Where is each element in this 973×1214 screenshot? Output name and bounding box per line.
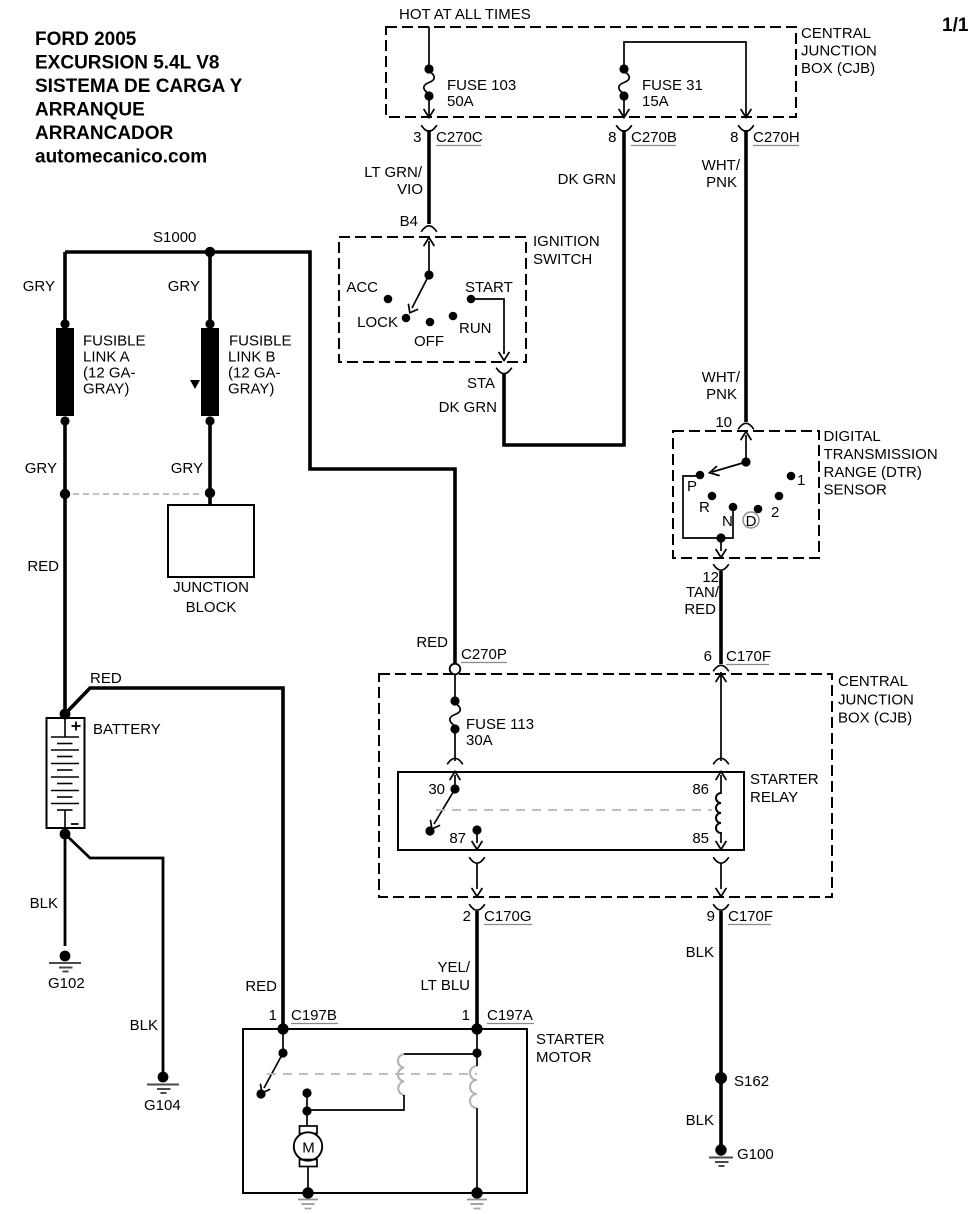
ignition switch arm (409, 238, 435, 313)
svg-text:automecanico.com: automecanico.com (35, 147, 207, 168)
splice dot left (60, 489, 70, 499)
wire GRY (upper left) (63, 252, 67, 324)
svg-text:HOT AT ALL TIMES: HOT AT ALL TIMES (399, 6, 531, 23)
DTR selector arm (710, 432, 752, 476)
svg-text:FUSIBLE: FUSIBLE (83, 333, 146, 350)
battery (47, 718, 161, 828)
svg-text:JUNCTION: JUNCTION (173, 579, 249, 596)
ignition position RUN (449, 312, 492, 337)
connector C270H pin 8 (730, 125, 800, 146)
svg-text:C270C: C270C (436, 129, 483, 146)
svg-text:C170F: C170F (728, 908, 773, 925)
label CENTRAL JUNCTION BOX (CJB) top (801, 25, 877, 77)
starter solenoid switch (256, 1029, 287, 1099)
svg-text:1: 1 (269, 1007, 277, 1024)
central junction box CJB (lower) (379, 674, 832, 897)
connector at relay pin 86 (713, 758, 729, 764)
svg-text:GRAY): GRAY) (83, 381, 129, 398)
svg-text:RED: RED (90, 670, 122, 687)
ignition switch box (339, 237, 526, 362)
relay switch arm (425, 789, 455, 836)
svg-text:15A: 15A (642, 93, 669, 110)
label LT GRN/ VIO (364, 164, 423, 198)
svg-text:FORD 2005: FORD 2005 (35, 29, 137, 50)
DTR position D (743, 505, 762, 530)
splice at battery + (60, 709, 71, 720)
relay pin 30 (428, 772, 460, 799)
DTR position 1 (787, 472, 806, 489)
svg-text:G102: G102 (48, 975, 85, 992)
connector C270C pin 3 (413, 125, 483, 146)
connector C170F pin 9 (707, 904, 773, 925)
fuse 113 30A (450, 696, 534, 749)
connector C270P (416, 634, 507, 674)
connector at relay 87 exit (469, 857, 485, 863)
svg-text:BLK: BLK (686, 944, 714, 961)
DTR position N (722, 503, 737, 530)
svg-text:2: 2 (771, 504, 779, 521)
svg-text:S162: S162 (734, 1073, 769, 1090)
wire: 85 to CJB edge (716, 863, 726, 897)
svg-text:6: 6 (704, 648, 712, 665)
svg-text:M: M (302, 1140, 315, 1157)
svg-text:DK GRN: DK GRN (439, 399, 497, 416)
wire LT GRN/VIO: C270C to B4 (427, 130, 431, 224)
junction block (168, 505, 254, 616)
svg-text:SENSOR: SENSOR (824, 482, 888, 499)
relay pin 86 (692, 772, 726, 799)
wire: hot feed to fuse 103 (428, 27, 430, 68)
svg-text:RED: RED (27, 558, 59, 575)
ground G104 (144, 1072, 181, 1114)
svg-text:50A: 50A (447, 93, 474, 110)
starter motor box (243, 1029, 527, 1193)
svg-text:CENTRAL: CENTRAL (801, 25, 871, 42)
svg-text:RANGE (DTR): RANGE (DTR) (824, 464, 922, 481)
wire GRY (lower right) (208, 421, 212, 505)
svg-text:N: N (722, 513, 733, 530)
wire + arrow: fuse 31 to CJB edge (619, 98, 629, 118)
wire: pull-in coil to motor (307, 1095, 404, 1110)
svg-text:D: D (746, 513, 757, 530)
splice S1000 (153, 229, 215, 257)
wire: contact to motor (306, 1111, 308, 1126)
svg-text:(12 GA-: (12 GA- (83, 365, 136, 382)
wire: hot feed to fuse 31 and C270H branch (624, 42, 746, 116)
ignition position OFF (414, 318, 444, 350)
connector C197B pin 1 (269, 1007, 338, 1035)
svg-text:PNK: PNK (706, 174, 737, 191)
label STARTER MOTOR (536, 1031, 605, 1066)
svg-text:BLK: BLK (686, 1112, 714, 1129)
svg-text:C170G: C170G (484, 908, 532, 925)
connector at relay 85 exit (713, 857, 729, 863)
DTR position P (687, 471, 704, 495)
svg-text:BLOCK: BLOCK (186, 599, 237, 616)
svg-text:GRY: GRY (25, 460, 57, 477)
splice S162 (715, 1072, 769, 1090)
svg-text:DK GRN: DK GRN (558, 171, 616, 188)
label WHT/ PNK (lower) (702, 369, 741, 403)
svg-text:JUNCTION: JUNCTION (838, 692, 914, 709)
svg-text:LT BLU: LT BLU (421, 977, 470, 994)
wire + arrow: fuse 103 to CJB edge (424, 98, 434, 118)
wire BLK: battery to G102 (64, 834, 67, 946)
label DIGITAL TRANSMISSION RANGE (DTR) SENSOR (824, 428, 938, 499)
wire GRY (lower left) (63, 421, 67, 494)
wire: fuse 113 to relay pin 30 (454, 731, 456, 761)
ignition position LOCK (357, 314, 410, 331)
wire + arrow: C270H branch to CJB edge (741, 110, 751, 118)
title block (35, 29, 243, 168)
wire: C197A node (472, 1048, 481, 1057)
splice dot right (205, 488, 215, 498)
svg-text:STARTER: STARTER (536, 1031, 605, 1048)
ground (solenoid coil) (467, 1187, 487, 1208)
svg-text:BATTERY: BATTERY (93, 721, 161, 738)
svg-text:RED: RED (416, 634, 448, 651)
svg-text:C197B: C197B (291, 1007, 337, 1024)
svg-text:B4: B4 (400, 213, 418, 230)
DTR position R (699, 492, 716, 516)
svg-text:BOX (CJB): BOX (CJB) (838, 710, 912, 727)
svg-text:RED: RED (245, 978, 277, 995)
ignition position START (465, 279, 513, 303)
svg-text:EXCURSION 5.4L V8: EXCURSION 5.4L V8 (35, 53, 219, 74)
fuse 103 50A (424, 64, 516, 110)
label CENTRAL JUNCTION BOX (CJB) lower (838, 673, 914, 727)
svg-text:1: 1 (797, 472, 805, 489)
svg-text:LINK A: LINK A (83, 349, 130, 366)
ground G102 (48, 951, 85, 992)
svg-text:87: 87 (449, 830, 466, 847)
wire BLK: C170F 9 to S162 (719, 911, 723, 1073)
svg-text:PNK: PNK (706, 386, 737, 403)
wire: S1000 bus to C270P (65, 252, 455, 663)
svg-text:RUN: RUN (459, 320, 492, 337)
solenoid actuator dashed line (267, 1073, 477, 1075)
svg-text:CENTRAL: CENTRAL (838, 673, 908, 690)
svg-text:S1000: S1000 (153, 229, 196, 246)
wire RED: battery to starter motor (65, 688, 283, 1026)
svg-text:LINK B: LINK B (228, 349, 276, 366)
marker triangle (190, 380, 200, 389)
connector STA (467, 368, 512, 392)
svg-text:10: 10 (715, 414, 732, 431)
wire: 87 to CJB edge (472, 863, 482, 897)
svg-text:WHT/: WHT/ (702, 369, 741, 386)
svg-text:RELAY: RELAY (750, 789, 798, 806)
connector C170G pin 2 (463, 904, 532, 925)
svg-text:85: 85 (692, 830, 709, 847)
ignition position ACC (346, 279, 392, 303)
wire: START contact to STA terminal (471, 299, 509, 361)
svg-text:ACC: ACC (346, 279, 378, 296)
hold-in coil (gray) (470, 1066, 477, 1108)
svg-text:DIGITAL: DIGITAL (824, 428, 881, 445)
svg-text:GRY: GRY (168, 278, 200, 295)
svg-text:FUSE 103: FUSE 103 (447, 77, 516, 94)
svg-text:GRAY): GRAY) (228, 381, 274, 398)
relay pin 85 (692, 830, 726, 850)
svg-text:R: R (699, 499, 710, 516)
svg-text:GRY: GRY (23, 278, 55, 295)
label IGNITION SWITCH (533, 233, 600, 268)
svg-text:BLK: BLK (130, 1017, 158, 1034)
wire TAN/RED: DTR to C170F pin 6 (719, 571, 723, 664)
svg-text:1: 1 (462, 1007, 470, 1024)
wire: C270P to fuse 113 (454, 674, 456, 697)
ground (motor) (298, 1187, 318, 1208)
svg-text:(12 GA-: (12 GA- (228, 365, 281, 382)
svg-text:8: 8 (608, 129, 616, 146)
label TAN/ RED (684, 584, 719, 618)
svg-text:GRY: GRY (171, 460, 203, 477)
svg-text:WHT/: WHT/ (702, 157, 741, 174)
svg-text:8: 8 (730, 129, 738, 146)
svg-text:G104: G104 (144, 1097, 181, 1114)
connector pin 12 (702, 564, 728, 586)
svg-text:ARRANCADOR: ARRANCADOR (35, 123, 174, 144)
pull-in coil (gray) (398, 1054, 404, 1095)
svg-text:G100: G100 (737, 1146, 774, 1163)
svg-text:30: 30 (428, 781, 445, 798)
svg-text:RED: RED (684, 601, 716, 618)
relay actuator dashed line (436, 809, 712, 811)
connector B4 (400, 213, 437, 232)
svg-text:30A: 30A (466, 732, 493, 749)
wire RED: splice to battery (63, 494, 67, 712)
svg-text:BOX (CJB): BOX (CJB) (801, 60, 875, 77)
svg-text:FUSE 31: FUSE 31 (642, 77, 703, 94)
ground G100 (709, 1144, 774, 1166)
svg-text:P: P (687, 478, 697, 495)
wire YEL/LT BLU: C170G to C197A (475, 911, 479, 1029)
wire BLK: battery to G104 (65, 834, 163, 1073)
svg-text:ARRANQUE: ARRANQUE (35, 100, 145, 121)
fuse 31 15A (619, 64, 703, 110)
fusible link B (12 GA-GRAY) (201, 319, 292, 425)
svg-text:9: 9 (707, 908, 715, 925)
wire: C197A through hold-in coil to ground (476, 1029, 478, 1190)
relay pin 87 (449, 825, 482, 849)
svg-text:VIO: VIO (397, 181, 423, 198)
relay coil (716, 793, 721, 833)
svg-text:3: 3 (413, 129, 421, 146)
svg-text:2: 2 (463, 908, 471, 925)
wire BLK: S162 to G100 (719, 1083, 723, 1145)
wire: C170F 6 into CJB to relay 86 (716, 672, 726, 761)
central junction box CJB (top) (386, 27, 796, 117)
connector C270B pin 8 (608, 125, 677, 146)
svg-text:FUSE 113: FUSE 113 (466, 716, 534, 733)
digital transmission range DTR sensor box (673, 431, 819, 558)
svg-text:LT GRN/: LT GRN/ (364, 164, 423, 181)
svg-text:STARTER: STARTER (750, 771, 819, 788)
connector C170F pin 6 (704, 648, 771, 671)
connector pin 10 (715, 414, 753, 431)
svg-text:C270B: C270B (631, 129, 677, 146)
svg-text:SWITCH: SWITCH (533, 251, 592, 268)
label YEL/LT BLU wire into C197A, connector C197A pin 1 (462, 1007, 534, 1035)
svg-text:STA: STA (467, 375, 495, 392)
svg-text:JUNCTION: JUNCTION (801, 43, 877, 60)
motor M (294, 1126, 322, 1167)
connector at relay pin 30 (447, 758, 463, 764)
svg-text:FUSIBLE: FUSIBLE (229, 333, 292, 350)
DTR P/N contact wiring (683, 476, 733, 558)
svg-text:MOTOR: MOTOR (536, 1049, 592, 1066)
fusible link A (12 GA-GRAY) (56, 319, 146, 425)
svg-text:C270P: C270P (461, 646, 507, 663)
svg-text:C197A: C197A (487, 1007, 533, 1024)
DTR position 2 (771, 492, 783, 521)
svg-text:BLK: BLK (30, 895, 58, 912)
svg-text:TRANSMISSION: TRANSMISSION (824, 446, 938, 463)
svg-text:IGNITION: IGNITION (533, 233, 600, 250)
splice at battery - (60, 829, 71, 840)
solenoid contact pair (302, 1088, 311, 1115)
svg-text:OFF: OFF (414, 333, 444, 350)
label STARTER RELAY (750, 771, 819, 806)
label YEL/ LT BLU (421, 959, 471, 994)
svg-text:TAN/: TAN/ (686, 584, 720, 601)
svg-text:C170F: C170F (726, 648, 771, 665)
svg-text:START: START (465, 279, 513, 296)
svg-text:C270H: C270H (753, 129, 800, 146)
label WHT/ PNK (upper) (702, 157, 741, 191)
starter relay box (398, 772, 744, 850)
svg-text:86: 86 (692, 781, 709, 798)
wire GRY (upper right) (208, 252, 212, 324)
wire WHT/PNK: C270H to DTR pin 10 (744, 130, 748, 422)
svg-text:LOCK: LOCK (357, 314, 398, 331)
svg-text:1/1: 1/1 (942, 15, 969, 36)
wire DK GRN: STA to C270B (504, 130, 624, 445)
wire: coil top link (404, 1053, 477, 1055)
svg-text:YEL/: YEL/ (437, 959, 470, 976)
svg-text:SISTEMA DE CARGA Y: SISTEMA DE CARGA Y (35, 76, 243, 97)
wire: motor to case ground (307, 1166, 309, 1190)
dashed splice link (73, 493, 202, 495)
